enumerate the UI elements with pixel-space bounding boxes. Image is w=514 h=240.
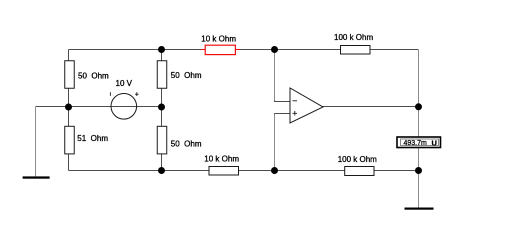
svg-text:100 k Ohm: 100 k Ohm — [338, 155, 377, 164]
svg-text:50 Ohm: 50 Ohm — [171, 140, 202, 149]
svg-text:50 Ohm: 50 Ohm — [171, 71, 202, 80]
svg-text:493.7m: 493.7m — [404, 140, 428, 147]
svg-text:51 Ohm: 51 Ohm — [77, 134, 108, 143]
svg-text:100 k Ohm: 100 k Ohm — [334, 33, 373, 42]
svg-text:50 Ohm: 50 Ohm — [78, 72, 109, 81]
svg-text:10 V: 10 V — [116, 79, 133, 88]
svg-text:10 k Ohm: 10 k Ohm — [204, 155, 239, 164]
svg-text:10 k Ohm: 10 k Ohm — [201, 35, 236, 44]
svg-text:U: U — [432, 138, 437, 147]
